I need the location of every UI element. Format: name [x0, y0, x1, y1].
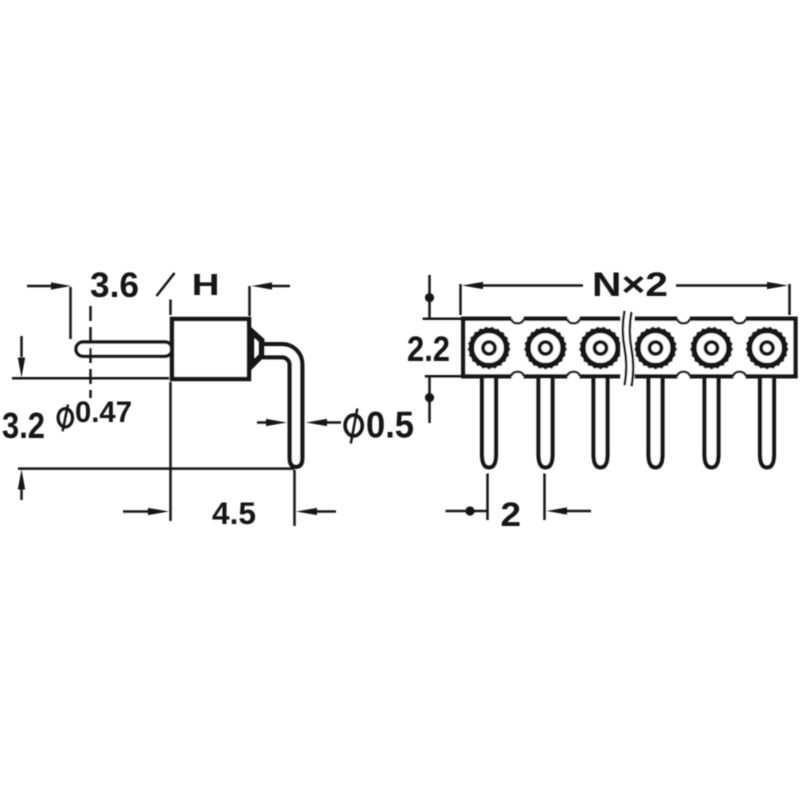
svg-text:3.2: 3.2 [2, 405, 45, 446]
svg-text:2.2: 2.2 [407, 330, 450, 369]
svg-text:3.6: 3.6 [90, 266, 139, 305]
svg-text:2: 2 [501, 496, 522, 534]
svg-text:4.5: 4.5 [212, 495, 256, 531]
svg-text:0.47: 0.47 [75, 396, 132, 429]
svg-text:N×2: N×2 [592, 266, 668, 304]
svg-text:0.5: 0.5 [366, 405, 414, 446]
svg-text:H: H [192, 267, 220, 302]
